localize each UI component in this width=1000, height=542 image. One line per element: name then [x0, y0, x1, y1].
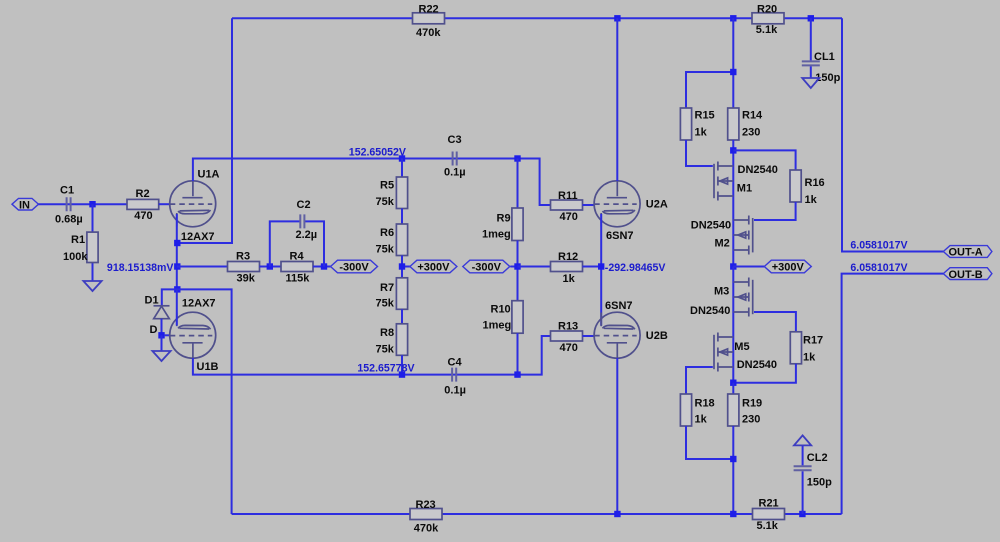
wire: node down to R19	[732, 383, 734, 394]
wire: R12 row from -300V node to R12	[518, 266, 551, 268]
wire: 918mV node to R3	[177, 266, 228, 268]
svg-text:6SN7: 6SN7	[606, 230, 634, 242]
svg-text:IN: IN	[19, 199, 30, 211]
wire: top branch to R14/R15	[686, 18, 733, 108]
svg-text:U2A: U2A	[646, 199, 668, 211]
svg-text:1meg: 1meg	[482, 229, 511, 241]
capacitor CL2	[794, 445, 833, 514]
wire: R8 down to 152.65778V node	[401, 355, 403, 374]
wire: U2A cathode down through -292V node to U2B cathode	[600, 214, 602, 326]
svg-text:115k: 115k	[286, 272, 311, 284]
wire: node down to R1	[92, 204, 94, 281]
resistor R10	[483, 301, 524, 334]
wire: R17 down to M5 source node	[733, 364, 796, 383]
svg-text:0.68µ: 0.68µ	[55, 213, 83, 225]
flag OUT-B	[943, 268, 992, 281]
svg-text:1k: 1k	[695, 126, 708, 138]
wire: C2 left bracket	[270, 221, 300, 266]
svg-text:U2B: U2B	[646, 330, 668, 342]
svg-text:R3: R3	[236, 250, 250, 262]
svg-text:12AX7: 12AX7	[181, 231, 215, 243]
svg-text:C3: C3	[448, 134, 462, 146]
svg-text:R11: R11	[558, 190, 578, 202]
mosfet M1 (DN2540)	[714, 162, 778, 201]
svg-text:R12: R12	[558, 251, 578, 263]
flag +300V (right)	[733, 260, 811, 273]
svg-text:CL1: CL1	[814, 51, 835, 63]
ground above CL2 (flipped)	[794, 435, 811, 445]
wire: U1B cathode up to node	[176, 289, 178, 325]
svg-text:C2: C2	[297, 199, 311, 211]
node: R14/R15 branch split	[730, 69, 736, 75]
node: U1A plate / R5 / C3 (152.65052V net)	[399, 155, 405, 161]
svg-text:75k: 75k	[376, 298, 395, 310]
mosfet M2 (DN2540, mirrored)	[691, 216, 753, 255]
svg-text:0.1µ: 0.1µ	[444, 384, 466, 396]
node: R6 / R7 / +300V	[399, 263, 405, 269]
wire: R9 to -300V node to R10	[510, 241, 517, 301]
node: M2 source / M3 source / +300V	[730, 263, 736, 269]
svg-text:470: 470	[134, 210, 152, 222]
node: C1 / R1 junction	[89, 201, 95, 207]
svg-text:470: 470	[560, 342, 578, 354]
wire: IN to C1 to node to R2	[39, 203, 128, 205]
flag +300V (center)	[410, 260, 457, 273]
resistor R3	[228, 250, 260, 284]
wire: D node to ground	[161, 335, 163, 351]
ground under CL1	[802, 78, 819, 88]
node: M5 source / R17 / R19	[730, 380, 736, 386]
wire: node down to R9	[517, 159, 519, 209]
svg-text:R2: R2	[136, 188, 150, 200]
wire: U2A plate up to top rail	[616, 18, 618, 181]
wire: top feedback rail A (y=18.3)	[232, 17, 842, 19]
node: R18 / R19 join	[730, 456, 736, 462]
resistor R15	[680, 108, 714, 140]
svg-text:75k: 75k	[376, 343, 395, 355]
resistor R6	[376, 224, 408, 256]
svg-text:-300V: -300V	[472, 262, 502, 274]
wire: M5 gate to R18	[686, 367, 713, 394]
resistor R9	[482, 208, 523, 241]
flag IN	[12, 198, 39, 211]
svg-text:R5: R5	[380, 180, 394, 192]
svg-text:OUT-B: OUT-B	[949, 269, 983, 281]
svg-text:39k: 39k	[237, 272, 256, 284]
svg-text:75k: 75k	[376, 196, 395, 208]
svg-text:R8: R8	[380, 327, 394, 339]
svg-text:C1: C1	[60, 185, 74, 197]
resistor R19	[728, 394, 762, 426]
wire: node down to R5	[401, 159, 403, 178]
node: M1 drain / R14 / R16	[730, 147, 736, 153]
svg-text:R22: R22	[419, 4, 439, 16]
svg-text:R13: R13	[558, 321, 578, 333]
wire: U1A plate row to C3 node (152V net)	[193, 159, 551, 206]
wire: U1B plate row to C4 node (152.657V net)	[193, 336, 551, 375]
wire: R7 to R8	[401, 309, 403, 324]
svg-text:R9: R9	[497, 212, 511, 224]
resistor R12	[551, 251, 583, 285]
wire: R22 vertical to U1A cathode	[177, 18, 232, 243]
node D (net label D)	[150, 324, 165, 339]
resistor R5	[376, 177, 408, 209]
mosfet M5 (DN2540)	[714, 333, 777, 372]
svg-text:M3: M3	[714, 285, 729, 297]
wire: R18 bottom join R19 bottom to rail	[686, 426, 733, 514]
wire: R10 down to C4 node	[517, 333, 519, 374]
node: R21 right / CL2 / OUT-B	[799, 511, 805, 517]
wire: M3 gate to R17	[754, 312, 796, 332]
svg-text:R20: R20	[757, 4, 777, 16]
svg-text:OUT-A: OUT-A	[949, 247, 983, 259]
svg-text:470: 470	[560, 211, 578, 223]
svg-text:6.0581017V: 6.0581017V	[850, 262, 907, 274]
flag -300V (center)	[463, 260, 510, 273]
svg-text:-300V: -300V	[339, 262, 369, 274]
capacitor C4	[444, 356, 466, 396]
node: cathode / R3 (918mV net)	[174, 263, 180, 269]
svg-text:230: 230	[742, 414, 760, 426]
svg-text:R1: R1	[71, 234, 85, 246]
resistor R22	[413, 4, 445, 39]
svg-text:R14: R14	[742, 109, 763, 121]
wire: drain node to R16	[733, 150, 795, 170]
svg-text:2.2µ: 2.2µ	[296, 229, 318, 241]
svg-text:R6: R6	[380, 227, 394, 239]
svg-text:DN2540: DN2540	[738, 164, 778, 176]
svg-text:+300V: +300V	[417, 262, 450, 274]
node: cathode / R12 (-292.98465V net)	[598, 263, 604, 269]
svg-text:75k: 75k	[376, 243, 395, 255]
node: cathode / R22 tap	[174, 240, 180, 246]
resistor R8	[376, 324, 408, 356]
wire: R3 to R4	[260, 266, 282, 268]
svg-text:100k: 100k	[63, 251, 88, 263]
capacitor C1	[55, 185, 83, 226]
resistor R18	[680, 394, 714, 426]
svg-text:R21: R21	[759, 497, 779, 509]
wire: R6 to +300V node to R7	[402, 256, 410, 278]
svg-text:R16: R16	[805, 177, 825, 189]
node: bottom rail / R19 branch	[730, 511, 736, 517]
wire: bottom rail (y=514)	[232, 513, 842, 515]
flag OUT-A	[943, 246, 992, 259]
svg-text:918.15138mV: 918.15138mV	[107, 262, 174, 274]
wire: node to D1 and to R23 vertical	[162, 289, 232, 514]
node: C3 / R9 junction	[514, 155, 520, 161]
capacitor CL1	[802, 18, 841, 84]
wire: R11 to U2A grid	[583, 204, 595, 206]
node: U1B plate / R8 / C4 (152.65778V net)	[399, 371, 405, 377]
svg-text:150p: 150p	[807, 477, 832, 489]
svg-text:R18: R18	[695, 397, 715, 409]
node: R3 / C2 left junction	[267, 263, 273, 269]
node: R20 right / CL1 / OUT-A	[808, 15, 814, 21]
capacitor C2	[296, 199, 318, 241]
node: C4 / R10 junction	[514, 371, 520, 377]
svg-text:6.0581017V: 6.0581017V	[850, 240, 907, 252]
wire: R15 down to M1 gate	[686, 140, 713, 166]
svg-text:+300V: +300V	[772, 262, 805, 274]
svg-text:M2: M2	[715, 238, 730, 250]
svg-text:1k: 1k	[695, 414, 708, 426]
svg-text:152.65778V: 152.65778V	[357, 363, 414, 375]
wire: U2B plate down to bottom rail	[616, 358, 618, 514]
resistor R21	[753, 497, 785, 532]
svg-text:12AX7: 12AX7	[182, 298, 216, 310]
node: R4 / C2 right junction	[321, 263, 327, 269]
svg-text:R4: R4	[290, 250, 305, 262]
svg-text:DN2540: DN2540	[737, 359, 777, 371]
svg-text:D1: D1	[145, 294, 159, 306]
wire: OUT-B branch	[842, 274, 944, 514]
wire: R5 to R6	[401, 209, 403, 225]
wire: R14 down to drain node, MOSFET rail down to +300V node	[732, 140, 734, 267]
triode U2B (6SN7, inverted)	[594, 300, 668, 358]
svg-text:152.65052V: 152.65052V	[349, 147, 406, 159]
wire: R13 to U2B grid	[583, 335, 595, 337]
svg-text:U1B: U1B	[197, 361, 219, 373]
wire: R2 to U1A grid	[159, 203, 171, 205]
svg-text:M5: M5	[734, 341, 749, 353]
triode U2A (6SN7)	[594, 181, 668, 242]
svg-text:0.1µ: 0.1µ	[444, 167, 466, 179]
svg-text:230: 230	[742, 126, 760, 138]
svg-text:C4: C4	[448, 356, 463, 368]
capacitor C3	[444, 134, 466, 178]
svg-text:1meg: 1meg	[483, 320, 512, 332]
wire: OUT-A branch	[842, 18, 943, 251]
svg-text:5.1k: 5.1k	[756, 24, 778, 36]
svg-text:R15: R15	[695, 109, 715, 121]
wire: D node to U1B grid	[164, 334, 170, 336]
svg-text:1k: 1k	[563, 273, 576, 285]
svg-text:R7: R7	[380, 282, 394, 294]
node: top rail / R14-R15 branch	[730, 15, 736, 21]
svg-text:DN2540: DN2540	[690, 305, 730, 317]
resistor R17	[790, 332, 823, 364]
resistor R23	[410, 499, 442, 535]
svg-text:R10: R10	[491, 303, 511, 315]
wire: R12 to -292V node	[583, 266, 602, 268]
resistor R7	[376, 278, 408, 310]
triode U1B (12AX7, inverted)	[170, 298, 219, 374]
svg-text:-292.98465V: -292.98465V	[605, 262, 666, 274]
svg-text:R17: R17	[803, 334, 823, 346]
svg-text:CL2: CL2	[807, 452, 828, 464]
wire: C2 right bracket	[305, 221, 324, 266]
wire: U1A cathode vertical chain	[176, 214, 178, 289]
node: R9 / R10 / -300V	[514, 263, 520, 269]
mosfet M3 (DN2540, mirrored+flipped)	[690, 278, 753, 317]
node: bottom rail / U2B plate	[614, 511, 620, 517]
ground under R1	[83, 281, 101, 291]
svg-text:470k: 470k	[414, 522, 439, 534]
svg-text:5.1k: 5.1k	[757, 520, 779, 532]
svg-text:DN2540: DN2540	[691, 219, 731, 231]
svg-text:1k: 1k	[805, 194, 818, 206]
resistor R11	[551, 190, 583, 223]
node: R22 top-rail / U2A plate junction	[614, 15, 620, 21]
ground under D1	[152, 351, 170, 361]
svg-text:1k: 1k	[803, 351, 816, 363]
resistor R14	[728, 108, 763, 140]
resistor R20	[752, 4, 784, 37]
triode U1A (12AX7)	[170, 169, 220, 244]
node: cathode-B / D1 / R23 tap	[174, 286, 180, 292]
diode D1	[145, 294, 170, 335]
svg-text:6SN7: 6SN7	[605, 300, 633, 312]
resistor R4	[281, 250, 313, 284]
svg-text:R23: R23	[416, 499, 436, 511]
svg-text:U1A: U1A	[198, 169, 220, 181]
resistor R13	[551, 321, 583, 355]
wire: MOSFET rail +300V node down to M5 source node	[732, 267, 734, 383]
resistor R2	[127, 188, 159, 222]
wire: R16 down to M2 gate	[754, 202, 796, 220]
svg-text:M1: M1	[737, 182, 752, 194]
wire: R4 to -300V flag	[313, 266, 331, 268]
svg-text:470k: 470k	[416, 27, 441, 39]
resistor R1	[63, 232, 98, 263]
svg-text:D: D	[150, 324, 158, 336]
flag -300V (R4 side)	[331, 260, 378, 273]
resistor R16	[790, 170, 825, 206]
svg-text:R19: R19	[742, 397, 762, 409]
